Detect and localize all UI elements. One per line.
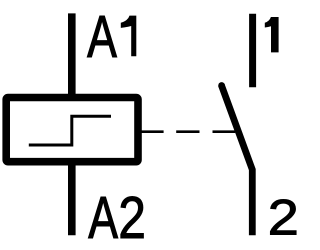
svg-text:A: A bbox=[88, 186, 118, 250]
dashed actuator link bbox=[140, 130, 235, 133]
svg-text:2: 2 bbox=[268, 190, 299, 245]
wire A1 terminal bbox=[68, 13, 76, 98]
wire contact terminal 1 bbox=[249, 14, 256, 88]
label 1 bbox=[265, 17, 279, 52]
contact lever (NO contact) bbox=[221, 85, 252, 235]
label A1 digit 1 bbox=[121, 16, 137, 57]
svg-text:A: A bbox=[87, 5, 117, 70]
svg-text:2: 2 bbox=[118, 185, 146, 250]
wire A2 terminal bbox=[68, 161, 76, 235]
step symbol inside coil bbox=[29, 116, 111, 145]
coil K1 bbox=[6, 98, 138, 162]
